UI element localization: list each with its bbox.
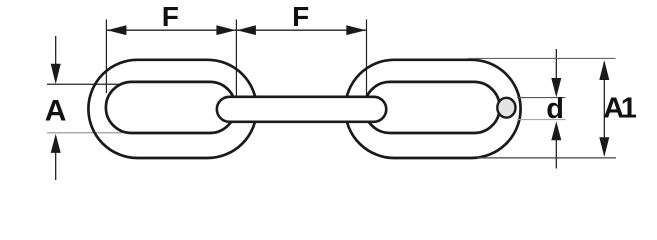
A upper stem [55, 36, 57, 81]
A upper arrow [51, 64, 61, 84]
left link inner [106, 82, 236, 133]
arrow F1 right [216, 25, 235, 35]
A1 extension line bottom [477, 157, 616, 159]
svg-text:F: F [162, 1, 179, 32]
d lower stem [555, 124, 557, 169]
F extension tick 2 [235, 19, 237, 97]
A extension line bottom [47, 132, 122, 134]
d extension line top [517, 97, 566, 99]
A1 upper arrow [599, 60, 609, 80]
arrow F1 left [107, 25, 126, 35]
d extension line bottom [517, 119, 566, 121]
right link inner [364, 82, 499, 133]
arrow F2 right [346, 25, 366, 35]
right link outer [345, 60, 520, 158]
A1 stem [603, 62, 605, 155]
svg-text:A: A [45, 94, 67, 127]
arrow F2 left [237, 25, 256, 35]
middle link bar [217, 97, 386, 122]
left link outer [88, 60, 256, 158]
dimension line F [106, 29, 366, 31]
A1 extension line top [468, 57, 616, 59]
svg-text:d: d [546, 93, 564, 125]
svg-text:A1: A1 [603, 92, 636, 124]
A extension line top [47, 83, 122, 85]
svg-text:F: F [292, 1, 309, 32]
F extension tick 1 [105, 19, 107, 93]
F extension tick 3 [366, 19, 368, 96]
A1 lower arrow [599, 137, 609, 157]
wire cross-section circle [497, 98, 515, 118]
d upper stem [555, 49, 557, 94]
d lower arrow [551, 121, 561, 140]
d upper arrow [551, 78, 561, 97]
A lower stem [55, 136, 57, 180]
A lower arrow [51, 134, 61, 153]
